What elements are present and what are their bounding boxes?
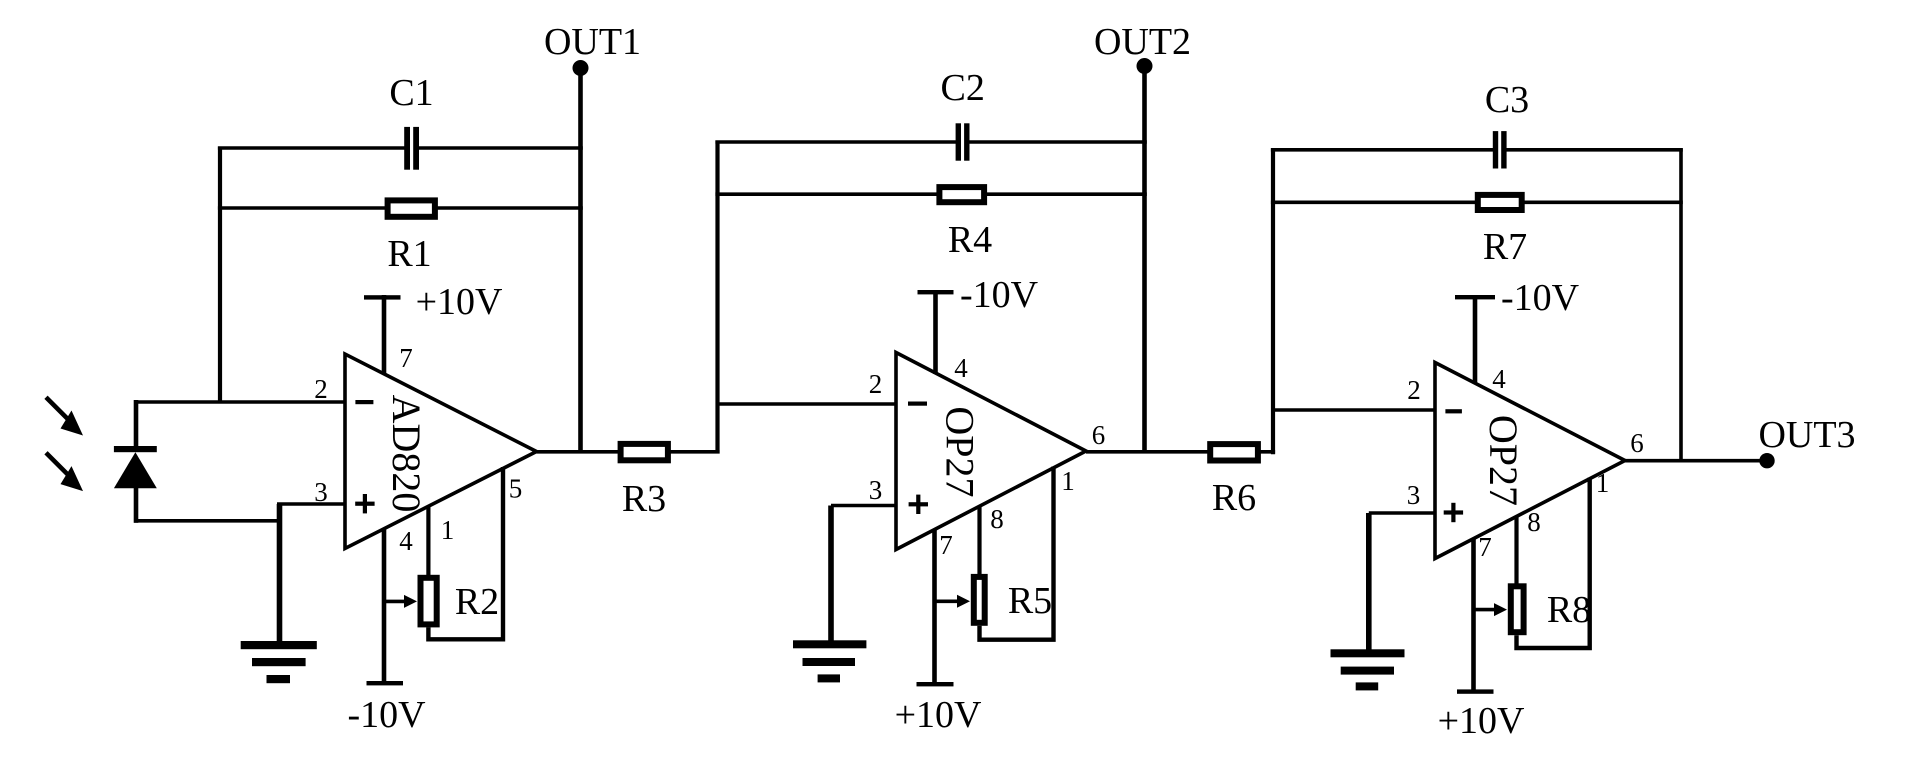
wire <box>969 140 1147 144</box>
wire <box>977 506 981 576</box>
svg-text:R4: R4 <box>948 219 992 261</box>
svg-text:3: 3 <box>314 477 328 507</box>
svg-text:4: 4 <box>399 526 413 556</box>
svg-text:R2: R2 <box>455 581 499 623</box>
svg-text:1: 1 <box>1061 466 1075 496</box>
svg-text:6: 6 <box>1630 428 1644 458</box>
svg-text:5: 5 <box>509 474 523 504</box>
svg-text:R3: R3 <box>622 478 666 520</box>
wire <box>831 504 896 508</box>
svg-text:R8: R8 <box>1547 589 1591 631</box>
light arrow <box>46 453 83 491</box>
resistor R6 <box>1210 444 1258 519</box>
svg-text:7: 7 <box>399 343 413 373</box>
wire <box>537 450 720 454</box>
power +10V <box>895 682 982 736</box>
wire <box>218 147 222 404</box>
svg-text:-10V: -10V <box>960 274 1039 316</box>
wire <box>578 68 583 454</box>
wire <box>382 295 387 375</box>
svg-text:3: 3 <box>1407 480 1421 510</box>
wire <box>1271 148 1275 454</box>
svg-text:C1: C1 <box>389 72 433 114</box>
op-amp U2 OP27 <box>896 353 1086 550</box>
node OUT2 <box>1094 21 1191 74</box>
svg-text:3: 3 <box>869 475 883 505</box>
svg-text:2: 2 <box>314 374 328 404</box>
wire <box>1514 516 1518 585</box>
svg-text:8: 8 <box>990 504 1004 534</box>
power +10V <box>1438 689 1525 742</box>
svg-text:7: 7 <box>1478 532 1492 562</box>
svg-text:OUT3: OUT3 <box>1758 414 1855 456</box>
wire <box>1086 450 1275 454</box>
svg-text:+10V: +10V <box>1438 700 1525 742</box>
wire <box>1506 148 1683 152</box>
svg-text:AD820: AD820 <box>384 395 429 513</box>
trimmer R2 <box>384 578 499 625</box>
svg-text:OP27: OP27 <box>1481 415 1526 506</box>
svg-text:-10V: -10V <box>1501 277 1580 319</box>
wire <box>134 400 345 404</box>
wire <box>382 528 387 683</box>
svg-text:C2: C2 <box>941 67 985 109</box>
power +10V <box>364 281 503 323</box>
svg-text:7: 7 <box>939 530 953 560</box>
wire <box>1271 201 1683 205</box>
svg-text:OUT1: OUT1 <box>544 21 641 63</box>
svg-text:OUT2: OUT2 <box>1094 21 1191 63</box>
op-amp U1 AD820 <box>345 354 537 549</box>
resistor R3 <box>621 444 668 520</box>
wire <box>828 506 834 643</box>
wire <box>419 146 583 150</box>
node OUT3 <box>1758 414 1855 468</box>
wire <box>932 530 937 684</box>
svg-text:R7: R7 <box>1483 226 1527 268</box>
photodiode D1 <box>114 400 157 523</box>
svg-text:+10V: +10V <box>895 694 982 736</box>
node OUT1 <box>544 21 641 76</box>
resistor R1 <box>387 200 435 275</box>
wire <box>428 467 503 639</box>
trimmer R8 <box>1474 586 1592 632</box>
ground <box>241 641 317 683</box>
power -10V <box>918 274 1039 316</box>
svg-text:8: 8 <box>1527 507 1541 537</box>
wire <box>218 206 583 210</box>
svg-text:1: 1 <box>1596 468 1610 498</box>
wire <box>1625 459 1767 463</box>
wire <box>426 506 430 577</box>
svg-text:6: 6 <box>1092 420 1106 450</box>
svg-text:+10V: +10V <box>416 281 503 323</box>
svg-text:-10V: -10V <box>347 694 426 736</box>
resistor R4 <box>939 187 992 261</box>
wire <box>1473 295 1478 384</box>
op-amp U3 OP27 <box>1435 363 1625 559</box>
wire <box>218 146 405 150</box>
wire <box>933 290 938 374</box>
wire <box>277 504 283 644</box>
wire <box>715 140 956 144</box>
wire <box>715 141 719 454</box>
capacitor C3 <box>1485 79 1529 169</box>
trimmer R5 <box>935 577 1053 623</box>
wire <box>718 402 897 406</box>
ground <box>1331 649 1405 690</box>
svg-text:OP27: OP27 <box>938 406 983 497</box>
capacitor C2 <box>941 67 985 161</box>
power -10V <box>347 681 426 736</box>
wire <box>980 467 1054 640</box>
svg-text:4: 4 <box>1492 364 1506 394</box>
wire <box>1271 148 1493 152</box>
capacitor C1 <box>389 72 433 170</box>
wire <box>1273 408 1435 412</box>
wire <box>715 192 1146 196</box>
svg-text:2: 2 <box>869 369 883 399</box>
svg-text:1: 1 <box>441 515 455 545</box>
wire <box>1142 66 1147 454</box>
light arrow <box>46 397 83 435</box>
wire <box>1471 539 1476 692</box>
svg-text:C3: C3 <box>1485 79 1529 121</box>
svg-text:R6: R6 <box>1212 477 1256 519</box>
wire <box>134 519 281 523</box>
ground <box>793 640 866 682</box>
power -10V <box>1455 277 1580 319</box>
wire <box>277 502 345 506</box>
svg-text:R5: R5 <box>1008 580 1052 622</box>
wire <box>1679 148 1683 462</box>
svg-text:R1: R1 <box>387 233 431 275</box>
wire <box>1366 513 1372 651</box>
svg-text:4: 4 <box>954 353 968 383</box>
resistor R7 <box>1478 195 1527 268</box>
svg-text:2: 2 <box>1407 375 1421 405</box>
wire <box>1369 511 1435 515</box>
wire <box>1517 478 1590 649</box>
